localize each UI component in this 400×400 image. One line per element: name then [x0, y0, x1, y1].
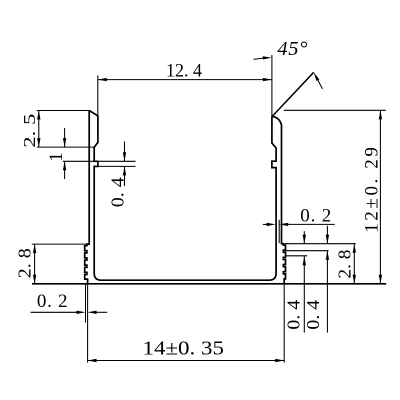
svg-text:2. 8: 2. 8 [334, 249, 354, 278]
svg-text:0. 4: 0. 4 [283, 300, 303, 330]
svg-text:0. 2: 0. 2 [300, 206, 331, 227]
svg-text:1: 1 [46, 152, 67, 162]
svg-text:2. 8: 2. 8 [14, 248, 34, 278]
svg-text:12. 4: 12. 4 [166, 61, 202, 82]
svg-text:2. 5: 2. 5 [20, 114, 39, 148]
svg-text:0. 4: 0. 4 [107, 177, 127, 207]
svg-text:45°: 45° [277, 38, 307, 60]
svg-text:0. 2: 0. 2 [37, 291, 68, 312]
svg-text:12±0. 29: 12±0. 29 [362, 147, 383, 233]
svg-text:14±0. 35: 14±0. 35 [143, 338, 225, 360]
svg-text:0. 4: 0. 4 [303, 300, 323, 330]
